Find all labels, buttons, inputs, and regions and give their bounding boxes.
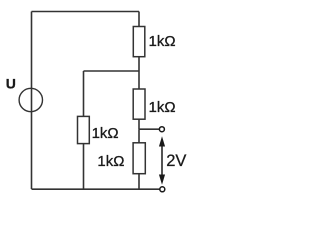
svg-text:U: U [6,76,16,92]
wire middle horizontal [84,70,140,72]
svg-text:1kΩ: 1kΩ [97,153,124,170]
wire top [32,11,140,13]
arrow 2V double-headed [160,138,165,183]
terminal bottom [160,187,165,192]
wire node to R4 [138,129,140,143]
wire right branch upper lead [138,12,140,27]
wire R3 to bottom [83,144,85,190]
wire left (through source) [31,12,33,190]
svg-text:2V: 2V [166,152,186,170]
resistor R1 [133,27,145,57]
wire R4 to bottom [138,174,140,190]
svg-text:1kΩ: 1kΩ [149,33,176,50]
voltage source U1 circle [19,88,42,111]
wire R2 to node [138,119,140,129]
wire node to top terminal [139,128,159,130]
terminal top [159,127,164,132]
resistor R4 [133,143,145,174]
wire bottom [32,188,160,190]
svg-text:1kΩ: 1kΩ [149,99,176,116]
svg-text:1kΩ: 1kΩ [92,125,119,142]
resistor R2 [133,89,145,119]
resistor R3 [78,116,90,143]
wire middle branch upper lead [83,71,85,116]
wire R1 to R2 [138,57,140,89]
